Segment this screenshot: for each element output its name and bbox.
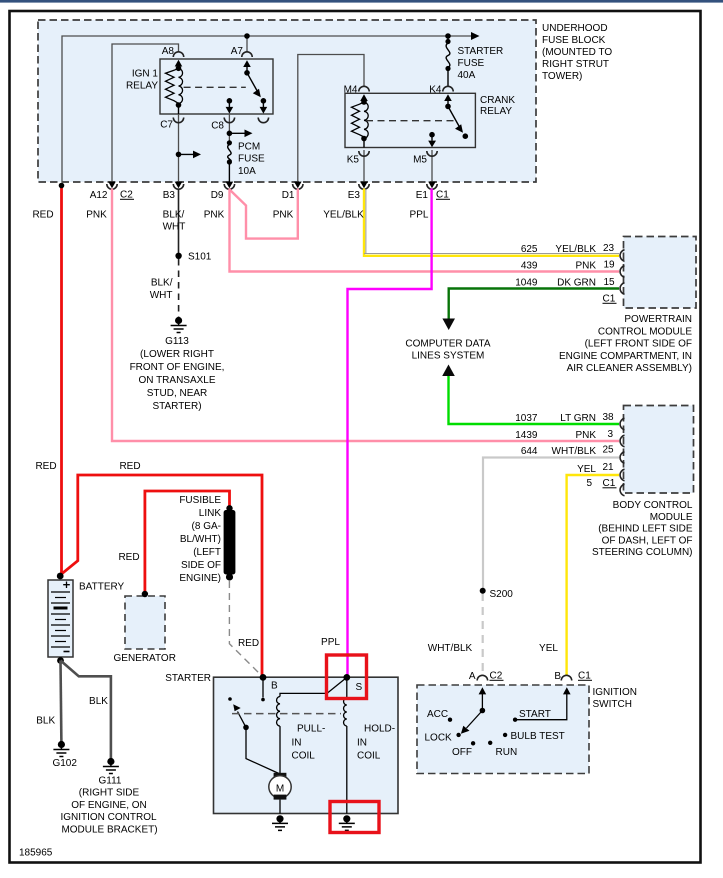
svg-text:BODY CONTROL: BODY CONTROL — [613, 500, 693, 511]
wire: C8 to D9 with PCM fuse — [228, 114, 230, 143]
svg-text:A8: A8 — [162, 46, 175, 57]
crank dashed link — [366, 120, 454, 122]
pin 5 — [620, 484, 624, 496]
svg-text:B: B — [271, 681, 278, 692]
wire PNK D9 to PCM pin 19 — [230, 189, 620, 272]
arrow: A8 into relay — [175, 60, 183, 67]
terminal M4 — [359, 86, 369, 91]
svg-text:FRONT OF ENGINE,: FRONT OF ENGINE, — [130, 362, 225, 373]
svg-text:CONTROL MODULE: CONTROL MODULE — [598, 326, 692, 337]
node: C8 tap dot — [227, 131, 233, 137]
svg-text:A7: A7 — [231, 46, 244, 57]
IGN 1 relay internals — [166, 60, 268, 114]
svg-text:A: A — [469, 671, 476, 682]
PCM pin arcs — [620, 250, 624, 295]
node: bus dot at starter fuse — [445, 33, 451, 39]
pin 23 — [620, 250, 624, 262]
terminal arcs relay tops — [173, 52, 453, 156]
terminal A12 — [107, 184, 117, 189]
svg-text:3: 3 — [608, 429, 614, 440]
relay switch blade — [244, 70, 250, 76]
svg-text:ON TRANSAXLE: ON TRANSAXLE — [138, 375, 215, 386]
svg-text:FUSE: FUSE — [458, 58, 485, 69]
svg-text:BLK/: BLK/ — [151, 278, 173, 289]
svg-text:OF ENGINE, ON: OF ENGINE, ON — [71, 800, 147, 811]
wire LT GRN BCM pin 38 to data lines — [449, 375, 620, 424]
svg-text:M4: M4 — [344, 85, 358, 96]
svg-text:644: 644 — [521, 446, 538, 457]
svg-text:C8: C8 — [211, 121, 224, 132]
svg-text:(MOUNTED TO: (MOUNTED TO — [542, 47, 612, 58]
svg-text:K5: K5 — [347, 155, 360, 166]
svg-text:625: 625 — [521, 244, 538, 255]
svg-text:STARTER: STARTER — [458, 46, 504, 57]
svg-text:(LOWER RIGHT: (LOWER RIGHT — [140, 349, 214, 360]
wire: hold-in coil to ground — [346, 726, 348, 814]
node: red wire exit dot — [59, 183, 65, 189]
svg-text:G102: G102 — [52, 758, 77, 769]
relay contact right exit — [262, 101, 264, 107]
wire BLK battery to G102 — [59, 661, 63, 744]
svg-text:YEL/BLK: YEL/BLK — [555, 244, 596, 255]
ignition switch box — [417, 685, 589, 774]
svg-text:PPL: PPL — [321, 637, 340, 648]
svg-text:PCM: PCM — [238, 142, 260, 153]
svg-text:WHT: WHT — [163, 222, 186, 233]
svg-text:5: 5 — [586, 478, 592, 489]
node S200 — [480, 588, 486, 594]
PCM fuse 10A — [228, 145, 231, 183]
svg-text:B3: B3 — [163, 190, 176, 201]
svg-text:OF DASH, LEFT OF: OF DASH, LEFT OF — [602, 535, 693, 546]
wire YEL/BLK E3 to PCM pin 23 — [364, 189, 619, 256]
node: starter S terminal — [343, 674, 350, 681]
svg-text:BULB TEST: BULB TEST — [511, 731, 565, 742]
arrow: ignition B entry — [563, 687, 571, 694]
svg-text:RIGHT STRUT: RIGHT STRUT — [542, 59, 609, 70]
pin 38 — [620, 418, 624, 430]
svg-text:BATTERY: BATTERY — [79, 582, 125, 593]
svg-text:(LEFT: (LEFT — [193, 547, 221, 558]
svg-text:PNK: PNK — [575, 261, 596, 272]
arrow: ignition A entry — [479, 687, 487, 694]
svg-text:PNK: PNK — [273, 210, 294, 221]
svg-text:RED: RED — [118, 552, 139, 563]
svg-text:S200: S200 — [490, 589, 514, 600]
svg-text:RED: RED — [32, 210, 53, 221]
svg-text:PULL-: PULL- — [297, 724, 325, 735]
svg-text:GENERATOR: GENERATOR — [114, 653, 176, 664]
underhood fuse block box — [38, 20, 536, 182]
arrow: A7 into relay — [243, 60, 251, 67]
arrows at fuse block exits — [108, 182, 436, 189]
svg-text:STEERING COLUMN): STEERING COLUMN) — [592, 547, 693, 558]
node: bus dot at A7 — [244, 33, 250, 39]
svg-text:RED: RED — [119, 461, 140, 472]
svg-text:ENGINE COMPARTMENT, IN: ENGINE COMPARTMENT, IN — [559, 351, 692, 362]
starter switch contact — [228, 697, 232, 701]
label underhood fuse block — [542, 23, 612, 82]
ground: hold-in coil — [339, 815, 355, 830]
terminal A8 — [173, 52, 183, 57]
wire: M5 drop to E1 — [431, 150, 433, 182]
highlight box around S terminal — [327, 655, 367, 699]
svg-text:CRANK: CRANK — [480, 95, 515, 106]
generator G1 — [125, 596, 165, 649]
wire: START to B — [515, 690, 567, 720]
wire: A7 drop from bus — [246, 36, 248, 52]
pin 3 — [620, 435, 624, 447]
arrow: M4 into relay — [360, 94, 368, 101]
svg-text:UNDERHOOD: UNDERHOOD — [542, 23, 608, 34]
svg-text:S: S — [356, 682, 363, 693]
svg-text:COMPUTER DATA: COMPUTER DATA — [405, 339, 491, 350]
crank contact to M5 — [429, 132, 435, 138]
pull-in coil — [277, 697, 280, 727]
svg-text:K4: K4 — [429, 85, 442, 96]
wire: C7 to B3 — [178, 114, 180, 182]
svg-text:PNK: PNK — [575, 430, 596, 441]
svg-text:185965: 185965 — [19, 848, 53, 859]
label powertrain control module — [559, 314, 692, 374]
pin 21 — [620, 469, 624, 481]
svg-text:23: 23 — [603, 243, 615, 254]
terminal D9 — [224, 184, 234, 189]
svg-text:RELAY: RELAY — [126, 81, 158, 92]
terminal arc A ignition — [477, 675, 487, 680]
svg-text:G111: G111 — [99, 776, 122, 787]
svg-text:BLK: BLK — [36, 716, 55, 727]
arrow: K4 into relay — [444, 94, 452, 101]
node: generator terminal dot — [142, 591, 148, 597]
svg-text:STARTER: STARTER — [165, 673, 211, 684]
terminal M5 — [427, 151, 437, 156]
crank switch blade — [445, 104, 451, 110]
terminal C7 — [173, 118, 183, 123]
svg-text:PNK: PNK — [86, 210, 107, 221]
svg-text:FUSIBLE: FUSIBLE — [179, 495, 221, 506]
relay coil L1 — [166, 68, 183, 103]
wire PNK D9 to D1 link — [230, 189, 298, 239]
svg-text:COIL: COIL — [357, 751, 381, 762]
ignition position dots — [448, 718, 452, 722]
svg-text:C7: C7 — [160, 120, 173, 131]
terminal C8 — [224, 118, 234, 123]
svg-text:SWITCH: SWITCH — [593, 699, 632, 710]
svg-text:15: 15 — [604, 277, 616, 288]
svg-text:WHT/BLK: WHT/BLK — [428, 643, 473, 654]
top window edge strip — [0, 0, 723, 3]
relay contact to C8 — [227, 98, 233, 104]
svg-text:1037: 1037 — [515, 413, 538, 424]
svg-text:ACC: ACC — [427, 709, 448, 720]
svg-text:A12: A12 — [90, 190, 108, 201]
svg-text:STARTER): STARTER) — [152, 401, 201, 412]
wire: S to pull-in coil — [280, 677, 347, 696]
svg-text:OFF: OFF — [452, 747, 472, 758]
node: battery negative dot — [57, 657, 64, 664]
svg-text:LT GRN: LT GRN — [560, 413, 596, 424]
svg-text:M5: M5 — [413, 155, 427, 166]
wire WHT/BLK BCM pin 25 to S200 — [483, 458, 619, 591]
terminal K4 — [443, 86, 453, 91]
wire: B post into starter — [262, 677, 264, 697]
arrow: lt grn up — [442, 365, 455, 377]
label G111 — [60, 776, 157, 836]
wire BLK/WHT dashed S101 to G113 — [178, 259, 180, 317]
fusible link F1 — [224, 510, 236, 575]
svg-text:439: 439 — [521, 261, 538, 272]
wire YEL BCM pin 21 to ignition B — [567, 475, 619, 675]
svg-text:(LEFT FRONT SIDE OF: (LEFT FRONT SIDE OF — [585, 339, 692, 350]
svg-text:FUSE: FUSE — [238, 154, 265, 165]
svg-text:BLK/: BLK/ — [163, 210, 185, 221]
starter switch blade — [238, 712, 247, 728]
pin 15 — [620, 283, 624, 295]
svg-text:STUD, NEAR: STUD, NEAR — [147, 388, 208, 399]
svg-text:LINK: LINK — [199, 508, 222, 519]
ignition switch blade — [480, 708, 486, 714]
svg-text:M: M — [276, 784, 284, 795]
svg-text:1049: 1049 — [515, 278, 538, 289]
svg-text:21: 21 — [603, 462, 615, 473]
svg-text:IGNITION CONTROL: IGNITION CONTROL — [60, 812, 157, 823]
ground G113 — [171, 317, 187, 333]
svg-text:RELAY: RELAY — [480, 106, 512, 117]
crank relay internals — [352, 94, 469, 147]
svg-text:25: 25 — [603, 445, 615, 456]
svg-text:ENGINE): ENGINE) — [179, 573, 221, 584]
svg-text:19: 19 — [604, 260, 616, 271]
crank relay box K1 — [345, 93, 475, 147]
wire: fusible link dashed to starter B — [229, 581, 262, 677]
svg-text:START: START — [519, 709, 551, 720]
svg-text:AIR CLEANER ASSEMBLY): AIR CLEANER ASSEMBLY) — [567, 363, 692, 374]
arrow: C8 tap to other circuits — [229, 132, 246, 134]
terminal E1 — [427, 184, 437, 189]
svg-text:RED: RED — [238, 638, 259, 649]
starter motor M — [269, 773, 291, 814]
svg-text:RED: RED — [35, 461, 56, 472]
svg-text:(RIGHT SIDE: (RIGHT SIDE — [79, 788, 140, 799]
wire: S to hold-in coil — [346, 677, 348, 698]
svg-text:S101: S101 — [188, 252, 212, 263]
svg-text:WHT/BLK: WHT/BLK — [552, 446, 597, 457]
svg-text:E1: E1 — [416, 190, 429, 201]
svg-text:G113: G113 — [165, 336, 189, 347]
pin 19 — [620, 266, 624, 278]
svg-text:10A: 10A — [238, 166, 256, 177]
svg-text:YEL: YEL — [539, 643, 558, 654]
arrow: C7 tap to other circuits — [179, 153, 196, 155]
svg-text:RUN: RUN — [496, 747, 518, 758]
svg-text:LINES SYSTEM: LINES SYSTEM — [412, 351, 485, 362]
wire WHT/BLK dashed S200 to ignition A — [482, 593, 484, 674]
highlight box around hold-in ground — [330, 802, 379, 833]
powertrain control module box — [624, 237, 697, 309]
label body control module — [592, 500, 693, 558]
svg-text:40A: 40A — [458, 70, 476, 81]
wire DK GRN PCM pin 15 to data lines — [449, 289, 619, 320]
svg-text:38: 38 — [603, 412, 615, 423]
svg-text:FUSE BLOCK: FUSE BLOCK — [542, 35, 606, 46]
svg-text:PPL: PPL — [410, 210, 429, 221]
wire: M4 riser to D1 — [298, 55, 364, 183]
BCM pin arcs — [620, 418, 624, 496]
wire PPL E1 to starter S — [348, 189, 432, 677]
svg-text:(8 GA-: (8 GA- — [192, 521, 221, 532]
starter fuse 40A — [446, 36, 450, 86]
svg-text:HOLD-: HOLD- — [364, 724, 395, 735]
svg-text:BL/WHT): BL/WHT) — [180, 534, 221, 545]
pin 25 — [620, 452, 624, 464]
ground G111 — [103, 758, 119, 774]
battery B1 — [48, 573, 73, 664]
hold-in coil — [344, 698, 347, 726]
wire: main red bus inside fuse block — [62, 36, 475, 182]
svg-text:1439: 1439 — [515, 430, 538, 441]
svg-text:D9: D9 — [211, 190, 224, 201]
terminal arc B ignition — [561, 675, 571, 680]
svg-text:IN: IN — [357, 738, 367, 749]
terminal K5 — [359, 151, 369, 156]
svg-text:BLK: BLK — [89, 696, 108, 707]
wire: K5 drop to E3 — [363, 150, 365, 182]
wire BLK/WHT B3 to S101 — [178, 189, 180, 256]
label fusible link — [179, 495, 221, 584]
svg-text:MODULE: MODULE — [650, 512, 693, 523]
svg-text:SIDE OF: SIDE OF — [181, 560, 221, 571]
svg-text:PNK: PNK — [204, 210, 225, 221]
svg-text:(BEHIND LEFT SIDE: (BEHIND LEFT SIDE — [598, 524, 693, 535]
wire: pull-in coil to motor — [279, 726, 281, 773]
terminal A7 — [242, 52, 252, 57]
battery - terminal — [64, 651, 70, 653]
arrow: bus continuation right — [471, 32, 480, 40]
ground: starter motor — [272, 815, 288, 830]
wire BLK battery to G111 — [61, 661, 111, 761]
svg-text:E3: E3 — [348, 190, 361, 201]
battery + terminal — [63, 582, 70, 589]
wire RED bus to starter B — [61, 475, 263, 676]
node: battery positive dot — [57, 573, 64, 580]
connector label C2 — [120, 190, 134, 201]
svg-text:IGNITION: IGNITION — [593, 687, 637, 698]
wire PNK A12 to BCM pin 3 — [112, 189, 619, 442]
wire: A12 to A8 relay coil feed — [112, 44, 179, 182]
IGN 1 relay box U1 — [160, 59, 273, 114]
svg-text:POWERTRAIN: POWERTRAIN — [624, 314, 692, 325]
node S101 — [175, 253, 181, 259]
svg-text:WHT: WHT — [150, 290, 173, 301]
connector label C1 — [436, 190, 450, 201]
crank relay coil L2 — [352, 102, 369, 138]
relay dashed link — [184, 86, 246, 88]
terminal B3 — [173, 184, 183, 189]
node: C7 tap dot — [176, 152, 182, 158]
terminal D1 — [293, 184, 303, 189]
svg-text:DK GRN: DK GRN — [557, 278, 596, 289]
fuse block bottom terminal arcs — [107, 184, 437, 189]
label G113 — [130, 336, 225, 412]
svg-text:IGN 1: IGN 1 — [132, 69, 159, 80]
svg-text:COIL: COIL — [292, 751, 316, 762]
svg-text:YEL/BLK: YEL/BLK — [323, 210, 364, 221]
ground G102 — [53, 741, 69, 757]
svg-text:B: B — [554, 671, 561, 682]
svg-text:IN: IN — [292, 738, 302, 749]
body control module box — [624, 406, 694, 494]
wire RED generator to fusible link — [145, 491, 230, 593]
svg-text:YEL: YEL — [577, 464, 596, 475]
dashed solenoid link — [232, 713, 341, 715]
terminal E3 — [359, 184, 369, 189]
arrow: dk grn down — [442, 319, 455, 331]
wire RED battery feed from fuse block — [60, 184, 63, 575]
node: starter B terminal — [260, 674, 267, 681]
terminal unnamed IGN relay — [258, 118, 268, 123]
starter motor assembly box — [214, 677, 399, 813]
svg-text:LOCK: LOCK — [425, 733, 453, 744]
svg-text:TOWER): TOWER) — [542, 71, 582, 82]
svg-text:MODULE BRACKET): MODULE BRACKET) — [61, 824, 157, 835]
svg-text:D1: D1 — [282, 190, 295, 201]
